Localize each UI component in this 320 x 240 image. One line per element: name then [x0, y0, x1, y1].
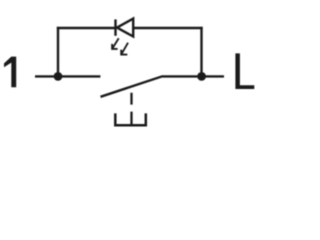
LED D1 cathode bar — [114, 19, 116, 35]
wire node A up — [57, 27, 59, 77]
node A (left junction) — [54, 72, 63, 81]
wire top right corner down to node B — [200, 27, 202, 77]
switch S1 fixed contact wire — [58, 75, 100, 77]
actuator link dashed line — [130, 93, 132, 125]
LED D1 triangle — [117, 19, 133, 37]
terminal label 1 — [4, 57, 16, 88]
node B (right junction) — [197, 72, 206, 81]
wire top left to LED — [57, 27, 116, 29]
LED emission arrow 2 — [121, 43, 128, 55]
switch S1 lever — [101, 76, 202, 96]
LED emission arrow 1 — [112, 38, 119, 49]
wire terminal 1 to node A — [35, 75, 58, 77]
terminal label L — [235, 53, 254, 89]
wire node B to terminal L — [202, 75, 224, 77]
manual actuator bracket — [115, 113, 146, 125]
wire LED to top right corner — [133, 27, 202, 29]
